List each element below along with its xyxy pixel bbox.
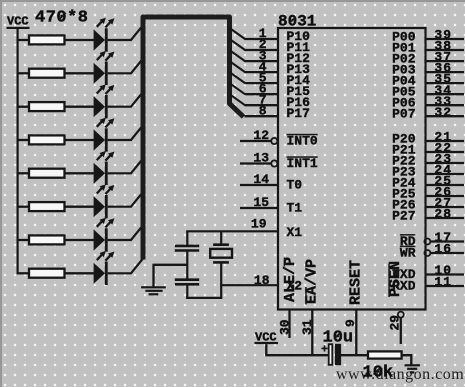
wire LED D2 to bus: [108, 59, 143, 74]
pin 17 stub RD: [431, 240, 464, 242]
power symbol VCC (bottom): [255, 330, 279, 344]
svg-text:16: 16: [434, 242, 452, 257]
wire resistor R5 to LED D5: [65, 172, 95, 174]
pin 4 stub P13: [245, 71, 279, 73]
wire X1 (pin 19) to crystal network: [186, 230, 278, 232]
svg-text:WR: WR: [400, 245, 416, 260]
pin 12 stub INT0: [240, 140, 271, 142]
overline INT0: [287, 134, 318, 136]
svg-text:32: 32: [434, 105, 452, 120]
resistor R3 470 ohm: [29, 102, 65, 111]
wire resistor R1 to LED D1: [65, 39, 95, 41]
pin 26 stub P25: [425, 195, 464, 197]
resistor R6 470 ohm: [29, 202, 65, 211]
pin 37 stub P02: [425, 60, 464, 62]
pin 15 stub T1: [240, 207, 278, 209]
pin 31 stub EA: [311, 310, 313, 356]
pin 25 stub P24: [425, 184, 464, 186]
op IC U1 8031 body: [278, 28, 426, 310]
wire C2 down to bottom: [186, 284, 188, 299]
svg-text:P17: P17: [287, 106, 310, 121]
crystal Y1: [210, 245, 232, 263]
pin 21 stub P20: [425, 140, 464, 142]
ground (reset resistor): [404, 365, 420, 372]
pin 38 stub P01: [425, 49, 464, 51]
ground (crystal caps): [141, 265, 166, 295]
overline EA of EA/VP: [305, 287, 307, 305]
wire bus to pin 2: [230, 39, 246, 50]
pin 36 stub P03: [425, 71, 464, 73]
wire C1 to C2: [186, 251, 188, 280]
svg-text:14: 14: [253, 172, 269, 187]
capacitor C1: [175, 246, 199, 251]
wire VCC rail to resistor R8: [17, 272, 30, 274]
wire resistor R2 to LED D2: [65, 72, 95, 74]
pin 7 stub P16: [245, 104, 279, 106]
pin 8 stub P17: [245, 115, 279, 117]
pin 13 stub INT1: [240, 162, 271, 164]
pin 24 stub P23: [425, 173, 464, 175]
svg-text:INT0: INT0: [287, 134, 318, 149]
pin 30 stub ALE: [288, 310, 290, 338]
resistor R7 470 ohm: [29, 235, 65, 244]
wire resistor R4 to LED D4: [65, 139, 95, 141]
wire LED D1 to bus: [108, 25, 143, 40]
LED D7: [94, 218, 115, 252]
wire resistor R3 to LED D3: [65, 106, 95, 108]
svg-text:RESET: RESET: [348, 260, 365, 305]
resistor R1 470 ohm: [29, 35, 65, 44]
wire VCC to reset rail: [266, 344, 328, 355]
pin 1 stub P10: [245, 38, 279, 40]
svg-text:29: 29: [387, 315, 402, 331]
pin 10 stub TXD: [425, 273, 464, 275]
resistor R8 470 ohm: [29, 269, 65, 278]
overline PSEN: [388, 264, 390, 298]
wire VCC rail to resistor R3: [17, 106, 30, 108]
svg-text:T0: T0: [287, 178, 303, 193]
wire bus to pin 3: [230, 50, 246, 61]
pin 23 stub P22: [425, 162, 464, 164]
LED D2: [94, 51, 115, 85]
wire VCC rail to resistor R5: [17, 172, 30, 174]
pin 3 stub P12: [245, 60, 279, 62]
wire crystal top to X1 wire: [220, 231, 222, 244]
LED D1: [94, 18, 115, 52]
svg-text:12: 12: [253, 128, 269, 143]
svg-text:www.diangon.com: www.diangon.com: [336, 366, 464, 383]
svg-text:8: 8: [259, 103, 267, 118]
wire resistor R7 to LED D7: [65, 239, 95, 241]
wire VCC rail to resistor R6: [17, 206, 30, 208]
resistor R4 470 ohm: [29, 135, 65, 144]
power symbol VCC (top left): [7, 15, 30, 30]
pin 9 stub RESET: [355, 310, 357, 356]
resistor R5 470 ohm: [29, 169, 65, 178]
wire bottom horizontal to crystal: [186, 297, 222, 299]
wire LED D4 to bus: [108, 125, 143, 140]
svg-text:VCC: VCC: [7, 15, 29, 29]
wire bus to pin 6: [230, 83, 246, 94]
pin 2 stub P11: [245, 49, 279, 51]
wire bus to pin 7: [230, 94, 246, 105]
pin 16 bubble WR: [424, 250, 430, 256]
overline P of ALE/P: [284, 258, 286, 267]
pin 6 stub P15: [245, 93, 279, 95]
pin 14 stub T0: [240, 184, 278, 186]
LED D4: [94, 118, 115, 152]
pin 27 stub P26: [425, 206, 464, 208]
wire VCC rail to resistor R4: [17, 139, 30, 141]
pin 34 stub P05: [425, 93, 464, 95]
slashed zero marks: [59, 13, 380, 375]
overline RD: [400, 234, 416, 236]
wire VCC rail to resistor R7: [17, 239, 30, 241]
wire resistor to ground: [402, 355, 412, 365]
wire VCC rail to resistor R1: [17, 39, 30, 41]
svg-text:13: 13: [253, 150, 269, 165]
overline WR: [400, 246, 416, 248]
wire bus to pin 5: [230, 72, 246, 83]
pin 32 stub P07: [425, 115, 464, 117]
wire LED D6 to bus: [108, 192, 143, 207]
svg-text:11: 11: [434, 275, 452, 290]
pin 29 stub PSEN: [400, 318, 402, 344]
resistor R2 470 ohm: [29, 69, 65, 78]
wire caps midpoint to ground: [153, 264, 189, 266]
wire VCC rail vertical: [17, 28, 19, 274]
svg-text:T1: T1: [287, 201, 303, 216]
svg-text:30: 30: [277, 319, 292, 335]
svg-text:31: 31: [300, 319, 315, 335]
pin 33 stub P06: [425, 104, 464, 106]
wire resistor R8 to LED D8: [65, 272, 95, 274]
LED D6: [94, 184, 115, 218]
pin 35 stub P04: [425, 82, 464, 84]
pin 28 stub P27: [425, 217, 464, 219]
pin 39 stub P00: [425, 38, 464, 40]
LED D3: [94, 84, 115, 118]
pin 17 bubble RD: [424, 239, 430, 245]
capacitor C3 10u polarized: [321, 344, 341, 365]
svg-text:P27: P27: [392, 208, 415, 223]
wire resistor R6 to LED D6: [65, 206, 95, 208]
wire X1 down to capacitor C1: [186, 231, 188, 245]
wire crystal bottom vertical: [220, 262, 222, 298]
pin 5 stub P14: [245, 82, 279, 84]
pin 16 stub WR: [431, 252, 464, 254]
wire capacitor to resistor / reset node: [341, 354, 369, 356]
svg-text:28: 28: [434, 207, 452, 222]
pin 13 bubble: [271, 160, 277, 166]
svg-text:X1: X1: [287, 225, 303, 240]
wire VCC rail to resistor R2: [17, 72, 30, 74]
overline INT1: [287, 156, 318, 158]
pin 22 stub P21: [425, 151, 464, 153]
wire X2 (pin 18) to crystal: [221, 284, 278, 286]
LED D8: [94, 251, 115, 285]
wire bus to pin 4: [230, 61, 246, 72]
pin 11 stub RXD: [425, 285, 464, 287]
svg-text:P07: P07: [392, 107, 415, 122]
pin 12 bubble: [271, 138, 277, 144]
wire LED D3 to bus: [108, 92, 143, 107]
svg-text:19: 19: [251, 217, 267, 232]
pin 29 bubble PSEN: [398, 312, 404, 318]
capacitor C2: [175, 280, 199, 285]
wire LED D8 to bus: [108, 259, 143, 274]
svg-text:15: 15: [253, 195, 269, 210]
svg-text:9: 9: [343, 319, 358, 327]
wire bus to pin 1: [230, 28, 246, 39]
wire LED D7 to bus: [108, 225, 143, 240]
wire LED D5 to bus: [108, 159, 143, 174]
resistor R9 10k: [368, 351, 402, 358]
wire bus (thick net from LEDs to port 1 pins): [143, 17, 244, 260]
svg-text:INT1: INT1: [287, 156, 318, 171]
LED D5: [94, 151, 115, 185]
